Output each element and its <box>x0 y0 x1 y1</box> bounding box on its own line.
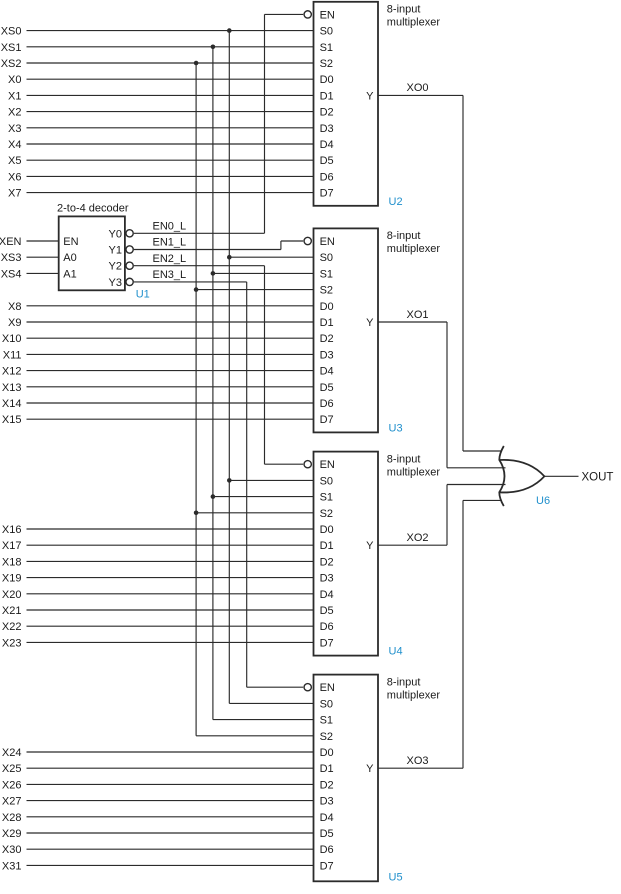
svg-text:D0: D0 <box>320 301 334 313</box>
svg-text:X10: X10 <box>2 333 22 345</box>
svg-text:D6: D6 <box>320 171 334 183</box>
svg-text:X14: X14 <box>2 398 22 410</box>
svg-text:X27: X27 <box>2 796 22 808</box>
svg-text:S0: S0 <box>320 26 333 38</box>
svg-text:X28: X28 <box>2 812 22 824</box>
svg-text:D3: D3 <box>320 123 334 135</box>
svg-text:D7: D7 <box>320 860 334 872</box>
svg-text:X9: X9 <box>8 317 21 329</box>
svg-text:X26: X26 <box>2 779 22 791</box>
svg-text:X24: X24 <box>2 747 22 759</box>
svg-text:8-input: 8-input <box>387 453 421 465</box>
svg-text:8-input: 8-input <box>387 676 421 688</box>
svg-text:D4: D4 <box>320 812 334 824</box>
svg-text:Y: Y <box>366 763 374 775</box>
svg-text:D4: D4 <box>320 366 334 378</box>
svg-text:D2: D2 <box>320 556 334 568</box>
svg-text:D5: D5 <box>320 605 334 617</box>
svg-text:EN1_L: EN1_L <box>153 237 187 249</box>
svg-text:S2: S2 <box>320 731 333 743</box>
svg-text:D2: D2 <box>320 779 334 791</box>
svg-text:XOUT: XOUT <box>582 471 614 483</box>
svg-text:XO3: XO3 <box>407 755 429 767</box>
svg-text:S0: S0 <box>320 252 333 264</box>
svg-text:U1: U1 <box>136 289 150 301</box>
svg-text:Y2: Y2 <box>109 261 122 273</box>
svg-text:multiplexer: multiplexer <box>387 466 441 478</box>
svg-text:D5: D5 <box>320 155 334 167</box>
svg-text:XO1: XO1 <box>407 309 429 321</box>
svg-text:Y: Y <box>366 317 374 329</box>
svg-text:X18: X18 <box>2 556 22 568</box>
svg-text:D1: D1 <box>320 90 334 102</box>
svg-text:XS1: XS1 <box>1 42 22 54</box>
svg-text:S2: S2 <box>320 508 333 520</box>
svg-text:S2: S2 <box>320 285 333 297</box>
svg-text:S0: S0 <box>320 698 333 710</box>
svg-text:D6: D6 <box>320 844 334 856</box>
svg-text:S0: S0 <box>320 475 333 487</box>
svg-text:EN: EN <box>63 236 78 248</box>
svg-text:D7: D7 <box>320 637 334 649</box>
svg-text:X31: X31 <box>2 860 22 872</box>
svg-text:X5: X5 <box>8 155 21 167</box>
svg-text:D2: D2 <box>320 333 334 345</box>
svg-text:X16: X16 <box>2 524 22 536</box>
svg-text:U2: U2 <box>389 196 403 208</box>
svg-text:X13: X13 <box>2 382 22 394</box>
svg-text:D0: D0 <box>320 747 334 759</box>
svg-text:D3: D3 <box>320 349 334 361</box>
svg-text:X30: X30 <box>2 844 22 856</box>
svg-text:multiplexer: multiplexer <box>387 243 441 255</box>
svg-text:XS0: XS0 <box>1 26 22 38</box>
svg-text:EN0_L: EN0_L <box>153 221 187 233</box>
svg-text:U3: U3 <box>389 422 403 434</box>
svg-text:8-input: 8-input <box>387 230 421 242</box>
svg-text:D3: D3 <box>320 796 334 808</box>
svg-text:X1: X1 <box>8 90 21 102</box>
svg-text:XS2: XS2 <box>1 58 22 70</box>
svg-text:XEN: XEN <box>0 236 22 248</box>
svg-text:X23: X23 <box>2 637 22 649</box>
svg-text:EN: EN <box>320 9 335 21</box>
svg-text:S1: S1 <box>320 42 333 54</box>
svg-text:S2: S2 <box>320 58 333 70</box>
svg-text:D6: D6 <box>320 621 334 633</box>
svg-text:Y0: Y0 <box>109 228 122 240</box>
svg-text:D1: D1 <box>320 763 334 775</box>
svg-text:Y1: Y1 <box>109 245 122 257</box>
svg-text:XS3: XS3 <box>1 252 22 264</box>
svg-text:XS4: XS4 <box>1 268 22 280</box>
svg-text:D1: D1 <box>320 540 334 552</box>
svg-text:U6: U6 <box>536 495 550 507</box>
svg-text:X2: X2 <box>8 107 21 119</box>
svg-text:8-input: 8-input <box>387 4 421 16</box>
svg-text:EN: EN <box>320 459 335 471</box>
svg-text:EN: EN <box>320 236 335 248</box>
svg-text:X20: X20 <box>2 589 22 601</box>
svg-text:X11: X11 <box>3 349 22 361</box>
svg-text:D4: D4 <box>320 139 334 151</box>
svg-text:D1: D1 <box>320 317 334 329</box>
svg-text:D7: D7 <box>320 414 334 426</box>
svg-text:D0: D0 <box>320 74 334 86</box>
svg-text:Y: Y <box>366 540 374 552</box>
svg-text:U4: U4 <box>389 646 403 658</box>
svg-text:X19: X19 <box>2 573 22 585</box>
svg-text:D4: D4 <box>320 589 334 601</box>
svg-text:X0: X0 <box>8 74 21 86</box>
svg-text:D2: D2 <box>320 107 334 119</box>
svg-text:D5: D5 <box>320 382 334 394</box>
svg-text:S1: S1 <box>320 492 333 504</box>
svg-text:X8: X8 <box>8 301 21 313</box>
svg-text:X7: X7 <box>8 188 21 200</box>
svg-text:EN: EN <box>320 682 335 694</box>
svg-text:EN2_L: EN2_L <box>153 253 187 265</box>
svg-text:S1: S1 <box>320 715 333 727</box>
svg-text:X15: X15 <box>2 414 22 426</box>
svg-text:X29: X29 <box>2 828 22 840</box>
svg-text:X21: X21 <box>2 605 22 617</box>
svg-text:XO0: XO0 <box>407 82 429 94</box>
svg-text:D0: D0 <box>320 524 334 536</box>
svg-text:S1: S1 <box>320 268 333 280</box>
svg-text:X22: X22 <box>2 621 22 633</box>
svg-text:A0: A0 <box>63 252 76 264</box>
svg-text:multiplexer: multiplexer <box>387 689 441 701</box>
svg-text:U5: U5 <box>389 871 403 883</box>
svg-text:D7: D7 <box>320 188 334 200</box>
svg-text:Y: Y <box>366 90 374 102</box>
svg-text:EN3_L: EN3_L <box>153 269 187 281</box>
svg-text:multiplexer: multiplexer <box>387 17 441 29</box>
svg-text:Y3: Y3 <box>109 277 122 289</box>
svg-text:2-to-4 decoder: 2-to-4 decoder <box>57 203 129 215</box>
svg-text:X17: X17 <box>2 540 22 552</box>
svg-text:A1: A1 <box>63 268 76 280</box>
svg-text:X4: X4 <box>8 139 21 151</box>
svg-text:X25: X25 <box>2 763 22 775</box>
svg-text:X3: X3 <box>8 123 21 135</box>
svg-text:D6: D6 <box>320 398 334 410</box>
svg-text:X12: X12 <box>2 366 22 378</box>
svg-text:D3: D3 <box>320 573 334 585</box>
svg-text:D5: D5 <box>320 828 334 840</box>
svg-text:XO2: XO2 <box>407 532 429 544</box>
svg-text:X6: X6 <box>8 171 21 183</box>
